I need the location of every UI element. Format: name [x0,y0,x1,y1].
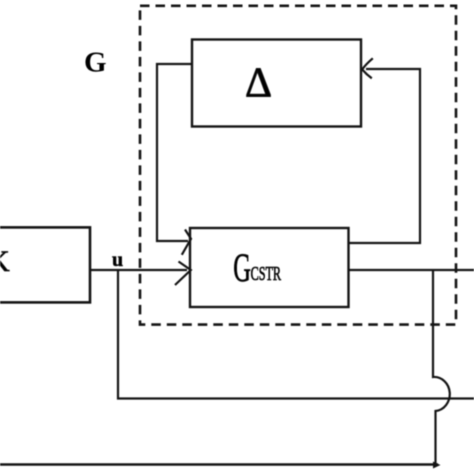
svg-text:u: u [112,249,123,271]
svg-text:G: G [84,47,107,79]
svg-text:K: K [0,245,10,278]
svg-text:Δ: Δ [245,61,272,107]
